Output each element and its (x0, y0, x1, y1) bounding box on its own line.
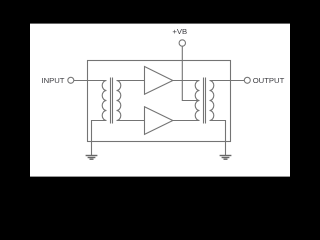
wire T1 secondary to amp A1 input (117, 80, 145, 82)
wire A2 output to transformer T2 primary bottom (173, 120, 200, 122)
wire T1 secondary to amp A2 input (117, 120, 145, 122)
wire INPUT to transformer T1 primary (74, 80, 107, 82)
op-amp A1 (top amplifier) (145, 67, 173, 95)
node OUTPUT terminal circle (244, 77, 250, 83)
wire T2 secondary to OUTPUT (210, 80, 245, 82)
op-amp A2 (bottom amplifier) (145, 107, 173, 135)
transformer T1 core (110, 78, 112, 124)
transformer T2 secondary winding (210, 81, 214, 121)
wire A1 output to transformer T2 primary top (173, 80, 200, 82)
module box outline (88, 61, 231, 142)
svg-text:OUTPUT: OUTPUT (253, 76, 285, 85)
transformer T1 primary winding (102, 81, 106, 121)
wire T2 secondary bottom lead to ground (210, 121, 226, 156)
transformer T2 core (203, 78, 205, 124)
ground symbol right (220, 156, 232, 160)
node INPUT terminal circle (68, 77, 74, 83)
svg-text:+VB: +VB (172, 27, 187, 36)
svg-text:INPUT: INPUT (41, 76, 64, 85)
ground symbol left (86, 156, 98, 160)
transformer T2 primary winding (195, 81, 199, 121)
node +VB terminal circle (179, 40, 185, 46)
wire T1 primary bottom lead to ground (92, 121, 107, 156)
white schematic panel (30, 24, 290, 177)
transformer T1 secondary winding (117, 81, 121, 121)
wire +VB to T2 primary center tap (182, 46, 199, 100)
